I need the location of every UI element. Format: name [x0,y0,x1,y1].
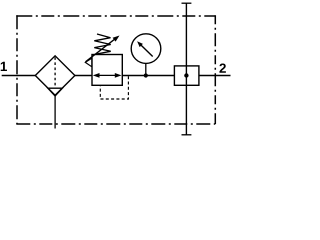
gauge needle [141,45,153,57]
port label 1 [1,62,7,71]
enclosure dash-dot border right [214,15,216,124]
wire filter to regulator [75,75,92,77]
filter F1 diamond [35,56,75,96]
filter drain line [54,95,56,128]
rail top cap [182,2,192,4]
pressure gauge G1 [131,34,161,64]
wire port 1 to filter [2,75,36,77]
node gauge junction [144,73,148,77]
enclosure dash-dot border top [16,15,215,17]
wire regulator to distributor [122,75,174,77]
enclosure dash-dot border bottom [16,123,215,125]
regulator flow double arrow [97,74,119,76]
filter dashed center line [54,57,56,87]
enclosure dash-dot border left [16,15,18,124]
distributor block B1 [174,66,199,85]
regulator spring [94,34,110,54]
regulator R1 body [92,55,122,86]
node distributor junction [184,73,188,77]
port label 2 [219,63,225,72]
distributor vertical rail [185,3,187,135]
filter condensate triangle [48,88,63,96]
regulator pilot dashed line [100,76,128,99]
wire distributor to port 2 [199,75,231,77]
regulator adjustment arrow [86,39,115,62]
rail bottom cap [182,134,192,136]
gauge stem wire [145,64,147,76]
regulator exhaust arrowhead [85,58,92,67]
